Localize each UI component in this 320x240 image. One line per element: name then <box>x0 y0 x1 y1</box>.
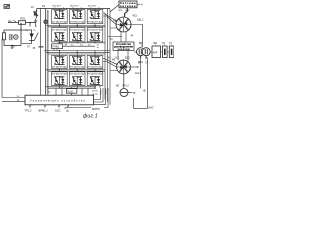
converter cell VU12 (C4) thyristor-diode pair <box>90 76 100 85</box>
wires M1 down to distribution box <box>121 32 126 43</box>
wire feedback left edge down <box>1 36 4 98</box>
leader dash <box>39 46 44 47</box>
box PrU1 <box>66 89 77 94</box>
svg-text:ВУ1 ВУ2: ВУ1 ВУ2 <box>70 5 79 7</box>
box ACHR <box>152 46 161 58</box>
wires distribution box down <box>118 50 128 61</box>
bus hatch marks <box>100 90 107 95</box>
converter cell VU6 (C2) thyristor-diode pair <box>90 32 100 41</box>
svg-text:На: На <box>8 19 12 23</box>
svg-text:ВУ1 ВД1 ВУ2 ВД2: ВУ1 ВД1 ВУ2 ВД2 <box>88 30 104 32</box>
wire M2 down to tacho <box>123 74 125 89</box>
svg-text:В: В <box>134 91 136 95</box>
fuse FU1 <box>19 21 26 25</box>
svg-text:СЧ: СЧ <box>162 43 166 45</box>
svg-text:ВУ1 ВУ2: ВУ1 ВУ2 <box>52 5 61 7</box>
svg-text:ВВ: ВВ <box>139 43 143 45</box>
wire left vertical <box>3 30 5 46</box>
svg-text:В1,2: В1,2 <box>125 58 130 60</box>
wires from grid into box top <box>41 49 58 96</box>
svg-text:ВОП3: ВОП3 <box>92 107 100 111</box>
svg-text:Устройство: Устройство <box>116 43 132 46</box>
svg-text:1б: 1б <box>31 5 34 9</box>
svg-text:питания: питания <box>120 5 136 8</box>
distribution device box <box>113 42 134 50</box>
converter cell VU11 (B4) thyristor-diode pair <box>72 76 82 85</box>
wire bus below row2 <box>58 42 105 44</box>
wire DC bus negative <box>47 10 49 94</box>
wire input top <box>8 22 36 24</box>
svg-text:SCC: SCC <box>55 109 61 113</box>
document stamp label 19 <box>4 4 11 9</box>
wire top link <box>37 8 47 10</box>
converter cell VU2 (B1) thyristor-diode pair <box>72 10 82 19</box>
source G1 circle <box>14 35 18 39</box>
PWM controller box PChV1 <box>52 44 63 49</box>
wire into chopper VT1 <box>21 29 32 31</box>
wires feedback into box left <box>2 98 25 102</box>
cell frames <box>52 9 103 89</box>
input chopper transistor VT0 <box>34 9 39 19</box>
wire M2 right <box>130 66 137 68</box>
svg-text:ИАС: ИАС <box>149 107 154 110</box>
svg-text:ВМ: ВМ <box>154 43 158 45</box>
ground <box>11 46 14 49</box>
wire box to motor M1 <box>125 8 128 18</box>
motor M1 <box>116 17 131 32</box>
wire bus below row4 <box>46 86 96 88</box>
wire control bus L4 <box>65 88 108 109</box>
svg-text:АЧР: АЧР <box>153 51 158 54</box>
wires to motor M2 <box>103 59 117 71</box>
svg-text:ВОП2: ВОП2 <box>92 94 98 96</box>
svg-text:фиг.1: фиг.1 <box>83 113 98 119</box>
wire control bus L2 <box>94 88 103 102</box>
resistor R1 <box>3 33 6 40</box>
wires to motor M1 <box>103 13 117 28</box>
svg-text:ПЧВ1: ПЧВ1 <box>52 45 59 49</box>
svg-text:ВУ1 ВД1 ВУ2 ВД2: ВУ1 ВД1 ВУ2 ВД2 <box>70 22 86 24</box>
junction dots mid bus <box>59 50 60 51</box>
svg-text:ВУ1 ВД1 ВУ2 ВД2: ВУ1 ВД1 ВУ2 ВД2 <box>70 30 86 32</box>
wire DC bus positive <box>45 9 47 94</box>
svg-text:МС1: МС1 <box>133 15 139 17</box>
wire transformer taps down <box>141 56 147 89</box>
converter cell VU8 (B3) thyristor-diode pair <box>72 56 82 65</box>
wire control bus L3 <box>94 88 106 105</box>
power system box <box>119 1 137 8</box>
svg-text:ВРМ1,2: ВРМ1,2 <box>39 109 49 113</box>
svg-text:АД1,2: АД1,2 <box>137 18 144 21</box>
svg-text:ПрУ1: ПрУ1 <box>67 90 74 93</box>
box filter 1 <box>163 46 168 58</box>
converter cell VU9 (C3) thyristor-diode pair <box>90 56 100 65</box>
wire M1 right loop <box>108 25 143 48</box>
wire right loop outer <box>134 58 148 109</box>
wire control bus L1 <box>94 88 101 100</box>
svg-text:ПЛ1: ПЛ1 <box>20 17 26 21</box>
svg-text:ВУ1 ВД1 ВУ2 ВД2: ВУ1 ВД1 ВУ2 ВД2 <box>70 74 86 76</box>
wire horizontal bus top <box>46 8 110 10</box>
svg-text:ВУ1 ВД1 ВУ2 ВД2: ВУ1 ВД1 ВУ2 ВД2 <box>88 22 104 24</box>
svg-text:ВУ1 ВД1 ВУ2 ВД2: ВУ1 ВД1 ВУ2 ВД2 <box>52 74 68 76</box>
svg-text:ВУ1 ВД1 ВУ2 ВД2: ВУ1 ВД1 ВУ2 ВД2 <box>52 30 68 32</box>
converter cell VU7 (A3) thyristor-diode pair <box>54 56 64 65</box>
wire chopper vertical <box>40 9 42 94</box>
chain connect wires <box>134 51 169 53</box>
converter cell VU1 (A1) thyristor-diode pair <box>54 10 64 19</box>
wire left branch horizontal <box>4 29 21 31</box>
junction dots on buses <box>59 25 60 26</box>
diode VD0 <box>44 20 48 24</box>
wire bus between row3 row4 <box>46 69 105 71</box>
motor M2 <box>117 60 131 74</box>
converter cell VU3 (C1) thyristor-diode pair <box>90 10 100 19</box>
junction node C <box>20 29 21 30</box>
svg-text:ВУ1 ВД1 ВУ2 ВД2: ВУ1 ВД1 ВУ2 ВД2 <box>88 74 104 76</box>
wire phase bus 3 <box>109 9 111 105</box>
converter cell VU5 (B2) thyristor-diode pair <box>72 32 82 41</box>
wire slant to power box <box>110 5 119 13</box>
svg-text:У1,2: У1,2 <box>115 58 120 60</box>
input chopper transistor VT1 <box>29 30 38 44</box>
wire mid buses <box>44 50 110 52</box>
label 4 with tie <box>138 3 141 5</box>
svg-text:ТР1,2: ТР1,2 <box>25 109 32 113</box>
wire phase bus 1 <box>104 13 106 100</box>
svg-text:ВУ1 ВУ2: ВУ1 ВУ2 <box>88 5 97 7</box>
tachogenerator BR <box>120 89 128 97</box>
wire mid vertical <box>20 23 22 46</box>
svg-text:СЧ: СЧ <box>138 62 142 64</box>
junction node B <box>11 45 13 47</box>
svg-text:Управляющее устройство: Управляющее устройство <box>30 99 85 103</box>
junction node A <box>29 22 31 24</box>
converter cell VU10 (A4) thyristor-diode pair <box>54 76 64 85</box>
box filter 2 <box>169 46 174 58</box>
wire branch down from node A <box>29 23 31 27</box>
transformer TV windings <box>137 48 145 56</box>
svg-text:ВР1,2: ВР1,2 <box>123 85 130 87</box>
control device box <box>25 95 94 105</box>
capacitor C2 input filter <box>34 19 37 26</box>
control box bottom ticks with hatches <box>30 105 68 108</box>
wire tacho right <box>128 92 133 94</box>
wire bus between row1 row2 <box>46 25 105 27</box>
cell pair link wires <box>54 11 100 85</box>
capacitor C1 <box>9 34 11 40</box>
wire phase bus 2 <box>107 9 109 102</box>
wire bottom of input cell <box>4 45 21 47</box>
wire mid gap <box>63 45 96 47</box>
svg-text:ВОП1: ВОП1 <box>92 91 98 93</box>
svg-text:ВУ1 ВД1 ВУ2 ВД2: ВУ1 ВД1 ВУ2 ВД2 <box>52 22 68 24</box>
svg-text:+В: +В <box>143 89 146 92</box>
converter cell VU4 (A2) thyristor-diode pair <box>54 32 64 41</box>
